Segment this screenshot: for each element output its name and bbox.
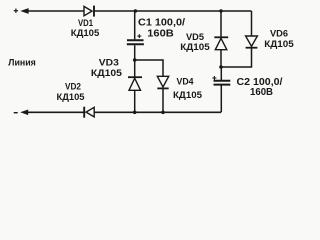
- wire: C2 to bottom rail: [220, 85, 222, 112]
- junction node bottom VD3: [133, 111, 137, 115]
- wire: VD3 to bottom rail: [134, 90, 136, 112]
- svg-text:VD2: VD2: [65, 82, 81, 92]
- svg-text:КД105: КД105: [180, 42, 210, 52]
- capacitor C2 polarity plus: [212, 76, 216, 80]
- bottom-left arrow terminal: [20, 110, 28, 116]
- diode VD4: [157, 76, 168, 88]
- wire: C1 to junction: [134, 45, 136, 60]
- junction node VD5/VD6/C2: [219, 65, 223, 69]
- svg-text:160В: 160В: [250, 86, 273, 98]
- junction node VD3/VD4 split: [133, 58, 137, 62]
- svg-text:VD1: VD1: [78, 18, 93, 28]
- diode VD6: [246, 36, 258, 48]
- diode VD1: [84, 6, 94, 17]
- plus terminal label: [14, 9, 18, 13]
- wire: top rail from arrow to VD1: [28, 10, 85, 12]
- minus terminal label: [14, 112, 18, 114]
- diode VD2: [84, 107, 94, 118]
- svg-text:VD4: VD4: [177, 76, 194, 86]
- wire: bottom rail VD2 to C2 corner: [95, 111, 222, 113]
- wire: VD6 down and left to junction: [221, 48, 252, 67]
- wire: C1 branch down from top rail: [134, 11, 136, 39]
- wire: VD5 to mid junction: [220, 50, 222, 67]
- svg-text:КД105: КД105: [264, 39, 294, 49]
- svg-text:VD3: VD3: [99, 58, 119, 68]
- diode VD3: [128, 77, 142, 90]
- svg-text:КД105: КД105: [91, 68, 122, 78]
- capacitor C1 polarity plus: [137, 34, 141, 38]
- capacitor C1: [127, 40, 144, 44]
- svg-text:C1 100,0/: C1 100,0/: [138, 16, 185, 28]
- capacitor C2: [214, 81, 231, 85]
- svg-text:VD5: VD5: [186, 32, 204, 42]
- wire: top rail VD1 to right corner: [95, 10, 252, 12]
- svg-text:КД105: КД105: [173, 90, 202, 100]
- wire: connector to VD4 branch: [135, 60, 163, 76]
- svg-text:160В: 160В: [147, 28, 174, 40]
- svg-text:VD6: VD6: [270, 29, 288, 39]
- wire: junction down to C2: [220, 67, 222, 80]
- top-left arrow terminal: [20, 8, 28, 14]
- wire: junction down to VD3: [134, 60, 136, 77]
- wire: top rail corner down to VD6: [251, 11, 253, 36]
- wire: VD5 branch down from top rail: [220, 11, 222, 37]
- wire: VD4 to bottom rail: [162, 88, 164, 112]
- svg-text:КД105: КД105: [71, 28, 100, 38]
- svg-text:КД105: КД105: [57, 92, 85, 102]
- junction node at C1 branch: [134, 9, 137, 12]
- svg-text:Линия: Линия: [8, 58, 36, 69]
- junction node bottom VD4: [161, 111, 165, 115]
- diode VD5: [214, 37, 228, 49]
- junction node at VD5 branch: [219, 9, 222, 12]
- wire: bottom rail from arrow to VD2: [27, 111, 84, 113]
